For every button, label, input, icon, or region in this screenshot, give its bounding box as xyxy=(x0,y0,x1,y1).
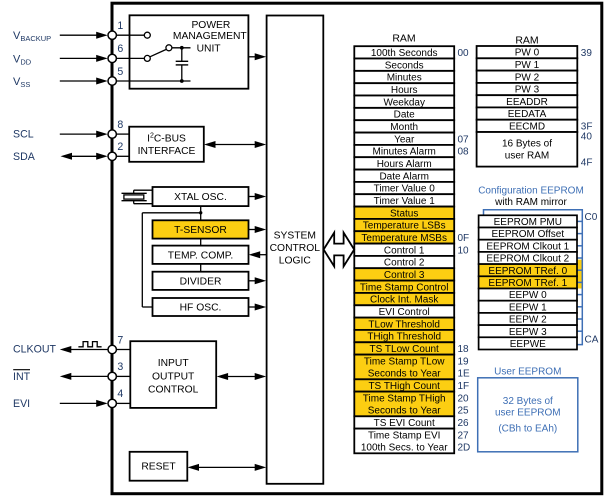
svg-text:CONTROL: CONTROL xyxy=(270,243,321,254)
svg-text:EEPWE: EEPWE xyxy=(510,339,546,350)
svg-text:SDA: SDA xyxy=(13,151,36,163)
svg-text:8: 8 xyxy=(117,119,123,131)
svg-text:27: 27 xyxy=(458,430,470,441)
svg-text:C0: C0 xyxy=(585,212,598,223)
svg-text:Weekday: Weekday xyxy=(383,97,425,108)
svg-text:Timer Value 1: Timer Value 1 xyxy=(374,196,436,207)
svg-text:Configuration EEPROM: Configuration EEPROM xyxy=(478,186,584,197)
svg-text:TS TLow Count: TS TLow Count xyxy=(370,344,440,355)
svg-text:PW 1: PW 1 xyxy=(515,60,540,71)
svg-text:Date: Date xyxy=(394,110,416,121)
svg-text:Control 1: Control 1 xyxy=(384,245,425,256)
svg-text:MANAGEMENT: MANAGEMENT xyxy=(173,31,248,42)
svg-text:Time Stamp EVI: Time Stamp EVI xyxy=(368,430,440,441)
svg-text:User EEPROM: User EEPROM xyxy=(494,366,561,377)
svg-text:CONTROL: CONTROL xyxy=(148,384,199,395)
svg-text:EEADDR: EEADDR xyxy=(506,97,548,108)
svg-text:LOGIC: LOGIC xyxy=(279,255,312,266)
svg-text:Time Stamp TLow: Time Stamp TLow xyxy=(364,356,445,367)
svg-text:Minutes: Minutes xyxy=(387,73,422,84)
svg-text:39: 39 xyxy=(581,48,593,59)
svg-text:4: 4 xyxy=(117,388,123,400)
svg-text:CA: CA xyxy=(585,334,599,345)
svg-text:CLKOUT: CLKOUT xyxy=(13,344,56,356)
svg-text:EEPW 1: EEPW 1 xyxy=(509,302,547,313)
svg-text:08: 08 xyxy=(458,147,470,158)
svg-text:T-SENSOR: T-SENSOR xyxy=(174,225,227,236)
svg-text:EVI: EVI xyxy=(13,398,30,410)
svg-text:DIVIDER: DIVIDER xyxy=(180,277,222,288)
svg-text:Control 3: Control 3 xyxy=(384,270,425,281)
svg-text:20: 20 xyxy=(458,393,470,404)
svg-text:00: 00 xyxy=(458,48,470,59)
svg-text:I2C-BUS: I2C-BUS xyxy=(147,133,186,145)
svg-text:Minutes Alarm: Minutes Alarm xyxy=(373,147,436,158)
svg-text:SYSTEM: SYSTEM xyxy=(274,231,316,242)
svg-text:7: 7 xyxy=(117,334,123,346)
svg-text:RESET: RESET xyxy=(141,462,176,473)
svg-text:EEPROM Offset: EEPROM Offset xyxy=(491,229,564,240)
svg-text:Temperature LSBs: Temperature LSBs xyxy=(363,221,446,232)
svg-text:40: 40 xyxy=(581,132,593,143)
svg-text:Seconds: Seconds xyxy=(385,60,424,71)
svg-text:user EEPROM: user EEPROM xyxy=(495,407,561,418)
svg-text:INTERFACE: INTERFACE xyxy=(138,146,196,157)
svg-text:INT: INT xyxy=(13,371,31,383)
svg-text:Time Stamp Control: Time Stamp Control xyxy=(360,282,449,293)
svg-text:1E: 1E xyxy=(458,369,471,380)
svg-text:RAM: RAM xyxy=(515,34,538,46)
svg-text:3: 3 xyxy=(117,361,123,373)
svg-text:1: 1 xyxy=(117,20,123,32)
svg-text:100th Secs. to Year: 100th Secs. to Year xyxy=(361,443,448,454)
svg-text:1F: 1F xyxy=(458,381,470,392)
svg-text:EEDATA: EEDATA xyxy=(508,109,547,120)
svg-text:18: 18 xyxy=(458,344,470,355)
svg-text:TS EVI Count: TS EVI Count xyxy=(374,418,435,429)
svg-text:Time Stamp THigh: Time Stamp THigh xyxy=(363,393,446,404)
svg-text:EEPW 0: EEPW 0 xyxy=(509,290,547,301)
svg-text:Timer Value 0: Timer Value 0 xyxy=(374,184,436,195)
svg-text:32 Bytes of: 32 Bytes of xyxy=(503,396,553,407)
svg-text:(CBh to EAh): (CBh to EAh) xyxy=(498,423,557,434)
svg-text:Hours Alarm: Hours Alarm xyxy=(377,159,432,170)
svg-text:EEPROM Clkout 2: EEPROM Clkout 2 xyxy=(486,254,569,265)
svg-text:Temperature MSBs: Temperature MSBs xyxy=(361,233,447,244)
svg-text:Control 2: Control 2 xyxy=(384,258,425,269)
svg-text:with RAM mirror: with RAM mirror xyxy=(494,197,567,208)
svg-text:THigh Threshold: THigh Threshold xyxy=(367,332,441,343)
svg-text:TS THigh Count: TS THigh Count xyxy=(368,381,440,392)
svg-text:XTAL OSC.: XTAL OSC. xyxy=(174,192,227,203)
svg-text:26: 26 xyxy=(458,418,470,429)
svg-text:EEPROM Clkout 1: EEPROM Clkout 1 xyxy=(486,241,569,252)
svg-text:5: 5 xyxy=(117,66,123,78)
svg-text:6: 6 xyxy=(117,43,123,55)
svg-text:4F: 4F xyxy=(581,157,593,168)
svg-text:EEPROM PMU: EEPROM PMU xyxy=(494,217,562,228)
svg-text:19: 19 xyxy=(458,356,470,367)
svg-text:TLow Threshold: TLow Threshold xyxy=(368,319,440,330)
svg-text:INPUT: INPUT xyxy=(158,358,190,369)
svg-text:EEPROM TRef. 0: EEPROM TRef. 0 xyxy=(488,266,567,277)
svg-text:HF OSC.: HF OSC. xyxy=(180,303,222,314)
svg-text:Month: Month xyxy=(390,122,418,133)
svg-text:Clock Int. Mask: Clock Int. Mask xyxy=(370,295,439,306)
svg-text:PW 2: PW 2 xyxy=(515,72,540,83)
svg-text:Status: Status xyxy=(390,208,418,219)
svg-text:Seconds to Year: Seconds to Year xyxy=(368,406,442,417)
svg-text:16 Bytes of: 16 Bytes of xyxy=(502,138,552,149)
svg-text:POWER: POWER xyxy=(191,20,230,31)
svg-text:EEPW 2: EEPW 2 xyxy=(509,315,547,326)
svg-text:0F: 0F xyxy=(458,233,470,244)
svg-text:EEPW 3: EEPW 3 xyxy=(509,327,547,338)
svg-text:100th Seconds: 100th Seconds xyxy=(371,48,438,59)
svg-text:07: 07 xyxy=(458,134,470,145)
svg-text:EECMD: EECMD xyxy=(509,122,545,133)
svg-text:OUTPUT: OUTPUT xyxy=(152,372,195,383)
svg-text:user RAM: user RAM xyxy=(505,151,549,162)
svg-text:Hours: Hours xyxy=(391,85,418,96)
svg-text:2D: 2D xyxy=(458,443,471,454)
svg-text:10: 10 xyxy=(458,245,470,256)
svg-text:Year: Year xyxy=(394,134,415,145)
svg-text:Seconds to Year: Seconds to Year xyxy=(368,369,442,380)
svg-text:UNIT: UNIT xyxy=(197,44,222,55)
svg-text:Date Alarm: Date Alarm xyxy=(379,171,428,182)
svg-text:EEPROM TRef. 1: EEPROM TRef. 1 xyxy=(488,278,567,289)
svg-text:PW 3: PW 3 xyxy=(515,85,540,96)
svg-text:RAM: RAM xyxy=(392,32,415,44)
svg-text:25: 25 xyxy=(458,406,470,417)
svg-text:2: 2 xyxy=(117,141,123,153)
svg-text:PW 0: PW 0 xyxy=(515,48,540,59)
svg-text:TEMP. COMP.: TEMP. COMP. xyxy=(168,250,233,261)
svg-text:EVI Control: EVI Control xyxy=(379,307,430,318)
svg-text:SCL: SCL xyxy=(13,129,34,141)
